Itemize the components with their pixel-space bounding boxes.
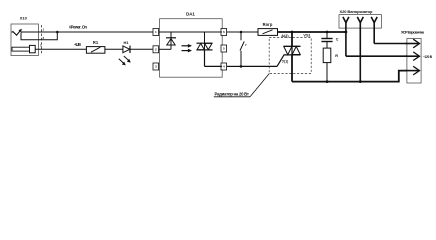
svg-text:+UВ: +UВ <box>74 42 81 47</box>
svg-text:Радиатор на 20 Вт: Радиатор на 20 Вт <box>215 92 250 97</box>
svg-text:У(1): У(1) <box>282 59 288 63</box>
svg-text:~220 В: ~220 В <box>423 55 433 59</box>
svg-text:A(2): A(2) <box>281 34 289 38</box>
svg-text:R: R <box>335 54 338 58</box>
svg-text:R1: R1 <box>93 40 99 45</box>
svg-text:Х20 Вапоризатор: Х20 Вапоризатор <box>340 9 374 14</box>
svg-text:ХСР Евровилка: ХСР Евровилка <box>401 31 425 35</box>
svg-text:VS1: VS1 <box>303 33 310 37</box>
svg-text:DA1: DA1 <box>186 12 195 17</box>
svg-text:Н1: Н1 <box>123 40 129 45</box>
svg-text:Х10: Х10 <box>20 15 28 20</box>
svg-text:С: С <box>336 37 339 41</box>
svg-text:#Power_On: #Power_On <box>69 24 87 29</box>
svg-text:Rогр: Rогр <box>263 22 273 27</box>
